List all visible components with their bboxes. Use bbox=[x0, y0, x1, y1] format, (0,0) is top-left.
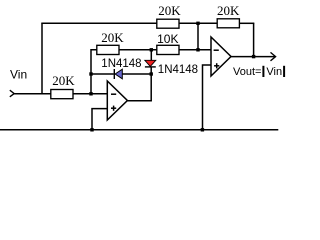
wire U2 non-inverting input to ground rail bbox=[203, 65, 212, 130]
junction ground U2 bbox=[201, 128, 204, 131]
wire red diode anode riser (node B down to diode) bbox=[150, 50, 152, 61]
junction U1 output node at diode wire bbox=[150, 72, 153, 75]
wire top rail segment Vin corner to R1 bbox=[41, 22, 156, 24]
wire node C vertical (between top rail and U2 inverting wire) bbox=[197, 23, 199, 50]
svg-text:20K: 20K bbox=[217, 3, 240, 18]
wire 10K right to U2 inverting input bbox=[179, 49, 212, 51]
junction ground U1 bbox=[90, 128, 93, 131]
wire input horizontal right (R3 to op-amp U1 inverting input, node A) bbox=[73, 93, 108, 95]
resistor R4 20K (U1 feedback) bbox=[97, 45, 119, 54]
wire red diode cathode down to U1 output node bbox=[150, 67, 152, 101]
resistor R3 20K (input resistor) bbox=[51, 90, 73, 99]
svg-text:1N4148: 1N4148 bbox=[101, 58, 141, 70]
svg-text:Vout=: Vout= bbox=[233, 66, 261, 78]
op-amp U1 bbox=[107, 81, 127, 120]
absolute value bar left bbox=[262, 66, 264, 77]
wire node A to blue diode (left segment) bbox=[91, 73, 114, 75]
svg-text:1N4148: 1N4148 bbox=[158, 64, 198, 76]
wire U1 non-inverting input to ground rail bbox=[92, 109, 108, 130]
wire R4 right to 10K left (node B) bbox=[119, 49, 157, 51]
resistor R1 20K (Vin to node C) bbox=[157, 19, 179, 28]
wire ground rail bbox=[0, 129, 278, 131]
svg-text:20K: 20K bbox=[52, 73, 75, 88]
absolute value bar right bbox=[283, 66, 285, 77]
wire R4 left stub and corner bbox=[91, 50, 97, 94]
junction node A on input wire bbox=[89, 92, 92, 95]
wire feedback vertical from top rail down to output node bbox=[253, 23, 255, 57]
output arrowhead bbox=[271, 52, 276, 60]
diode D1 1N4148 (blue, cathode left to node A) bbox=[114, 69, 123, 79]
junction node C bottom bbox=[196, 48, 199, 51]
svg-text:10K: 10K bbox=[157, 32, 178, 46]
wire top rail segment R1 to R2 (node C riser junction) bbox=[179, 22, 218, 24]
resistor R5 10K (node B to node C) bbox=[157, 45, 179, 54]
wire U1 output to riser corner bbox=[127, 100, 151, 102]
node Vin input arrow bbox=[10, 90, 14, 97]
svg-text:Vin: Vin bbox=[10, 68, 27, 82]
wire Vin vertical riser to top rail bbox=[41, 23, 43, 94]
junction node C top bbox=[196, 22, 199, 25]
junction node A at feedback riser bbox=[89, 72, 92, 75]
wire input horizontal left (arrow to R3) bbox=[14, 93, 51, 95]
wire blue diode anode to U1 output riser bbox=[122, 73, 152, 75]
wire top rail segment R2 to output feedback corner bbox=[239, 22, 254, 24]
svg-text:Vin: Vin bbox=[266, 66, 282, 78]
junction node B bbox=[150, 48, 153, 51]
diode D2 1N4148 (red, cathode down to U1 output) bbox=[145, 60, 156, 67]
op-amp U2 bbox=[211, 37, 231, 76]
junction output node bbox=[252, 55, 255, 58]
svg-text:20K: 20K bbox=[158, 3, 181, 18]
resistor R2 20K (feedback Vout to node C) bbox=[217, 19, 239, 28]
svg-text:20K: 20K bbox=[101, 30, 124, 45]
wire U2 output to arrow bbox=[231, 56, 275, 58]
